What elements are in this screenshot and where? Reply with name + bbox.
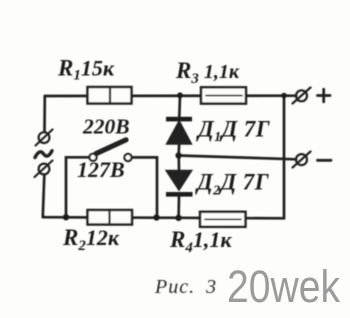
resistor R4: [200, 212, 246, 227]
resistor R3: [201, 87, 246, 103]
svg-text:20wek: 20wek: [227, 261, 340, 312]
diode D1: [166, 117, 192, 144]
svg-text:127В: 127В: [77, 157, 125, 182]
wire left vertical lower: [43, 176, 45, 218]
node switch right leg: [153, 214, 159, 220]
minus sign: [318, 159, 332, 162]
switch contact right: [124, 154, 131, 161]
svg-text:R115к: R115к: [57, 56, 115, 84]
wire switch left arm: [66, 157, 90, 217]
svg-text:R41,1к: R41,1к: [169, 227, 232, 256]
wire diode column D1 to node: [177, 144, 180, 156]
wire top horizontal: [45, 94, 296, 97]
node switch left leg: [63, 214, 69, 220]
resistor R2: [88, 210, 133, 225]
wire node to D2: [177, 156, 180, 172]
terminal input top: [36, 130, 53, 146]
terminal plus output: [293, 88, 311, 104]
wire switch right arm: [132, 157, 158, 217]
node plus junction: [281, 93, 287, 99]
svg-text:Д1Д 7Г: Д1Д 7Г: [196, 117, 270, 146]
plus sign: [318, 89, 331, 101]
resistor R1: [88, 87, 132, 104]
svg-text:Д2Д 7Г: Д2Д 7Г: [195, 170, 269, 199]
wire diode column top: [178, 96, 181, 118]
node bottom diode junction: [175, 215, 181, 221]
node diode midpoint: [175, 152, 181, 158]
terminal input bottom: [35, 161, 53, 178]
terminal minus output: [293, 152, 311, 168]
switch lever: [96, 140, 126, 154]
svg-text:R3 1,1к: R3 1,1к: [175, 58, 240, 87]
wire bottom horizontal: [43, 217, 284, 218]
svg-text:Рис. 3: Рис. 3: [154, 276, 217, 298]
ac tilde symbol: [35, 151, 52, 158]
wire right vertical: [283, 96, 286, 219]
wire minus output: [179, 156, 297, 160]
wire left vertical upper: [43, 96, 46, 131]
node top junction: [177, 92, 183, 98]
diode D2: [166, 171, 193, 197]
switch contact left: [89, 154, 96, 161]
wire D2 to bottom: [177, 196, 180, 218]
svg-text:220В: 220В: [82, 115, 130, 139]
svg-text:R212к: R212к: [62, 225, 120, 254]
